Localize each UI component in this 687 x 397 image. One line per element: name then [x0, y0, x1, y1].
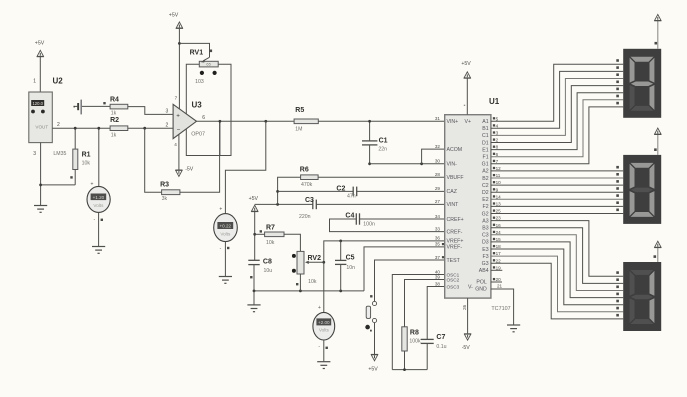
- svg-text:Volts: Volts: [93, 203, 104, 208]
- svg-text:28: 28: [435, 172, 441, 177]
- svg-text:U2: U2: [53, 77, 64, 86]
- svg-text:C4: C4: [345, 212, 354, 219]
- svg-text:16: 16: [496, 223, 502, 228]
- svg-text:36: 36: [435, 236, 441, 241]
- svg-text:C7: C7: [436, 334, 445, 341]
- svg-text:47n: 47n: [347, 194, 356, 200]
- svg-text:VIN+: VIN+: [447, 119, 459, 125]
- svg-text:VREF-: VREF-: [447, 245, 463, 251]
- svg-text:14: 14: [496, 194, 502, 199]
- svg-text:6: 6: [496, 152, 499, 157]
- svg-text:VBUFF: VBUFF: [447, 175, 464, 181]
- svg-text:C5: C5: [346, 254, 355, 261]
- svg-text:120.0: 120.0: [32, 101, 43, 106]
- svg-text:39: 39: [435, 274, 441, 279]
- svg-text:U3: U3: [192, 100, 203, 109]
- svg-text:+5V: +5V: [461, 61, 471, 67]
- svg-text:Volts: Volts: [220, 231, 231, 236]
- svg-text:470k: 470k: [301, 182, 313, 188]
- svg-text:C2: C2: [482, 183, 489, 189]
- svg-text:6: 6: [202, 115, 205, 121]
- svg-text:+5V: +5V: [35, 41, 45, 47]
- svg-text:C1: C1: [482, 133, 489, 139]
- svg-text:+: +: [318, 305, 321, 311]
- svg-text:R7: R7: [266, 225, 275, 232]
- svg-text:R5: R5: [295, 107, 304, 114]
- svg-text:RV2: RV2: [308, 255, 322, 262]
- svg-text:33: 33: [435, 226, 441, 231]
- svg-text:OSC2: OSC2: [447, 277, 460, 282]
- svg-text:R4: R4: [110, 97, 119, 104]
- svg-text:AB4: AB4: [479, 268, 489, 274]
- svg-text:21: 21: [497, 283, 503, 288]
- svg-text:−: −: [177, 127, 181, 134]
- svg-text:4: 4: [496, 123, 499, 128]
- svg-text:VOUT: VOUT: [35, 124, 48, 129]
- svg-text:+5V: +5V: [368, 367, 378, 373]
- svg-text:R1: R1: [82, 152, 91, 159]
- svg-text:POL: POL: [476, 280, 486, 286]
- svg-text:27: 27: [435, 199, 441, 204]
- svg-text:1M: 1M: [295, 126, 302, 132]
- svg-text:10k: 10k: [308, 279, 317, 285]
- svg-text:C3: C3: [305, 197, 314, 204]
- svg-text:V+: V+: [465, 119, 472, 125]
- svg-text:VINT: VINT: [447, 202, 460, 208]
- svg-text:23: 23: [496, 216, 502, 221]
- svg-text:11: 11: [496, 173, 501, 178]
- svg-text:C1: C1: [379, 138, 388, 145]
- svg-text:3: 3: [166, 109, 169, 115]
- svg-text:F2: F2: [483, 204, 489, 210]
- svg-text:VIN-: VIN-: [447, 162, 458, 168]
- svg-text:CREF-: CREF-: [447, 229, 463, 235]
- svg-text:A3: A3: [482, 218, 488, 224]
- svg-text:2: 2: [496, 138, 499, 143]
- svg-text:29: 29: [435, 186, 441, 191]
- svg-text:Volts: Volts: [319, 328, 330, 333]
- svg-text:OSC3: OSC3: [447, 284, 460, 289]
- svg-text:10k: 10k: [82, 161, 91, 167]
- svg-text:4: 4: [174, 142, 177, 147]
- svg-text:7: 7: [175, 96, 178, 101]
- svg-text:R6: R6: [300, 167, 309, 174]
- svg-text:E2: E2: [482, 197, 488, 203]
- svg-text:CAZ: CAZ: [447, 189, 457, 195]
- svg-text:30: 30: [435, 159, 441, 164]
- svg-text:1k: 1k: [111, 111, 117, 117]
- svg-text:+1.20: +1.20: [93, 195, 105, 200]
- svg-text:V-: V-: [468, 284, 473, 290]
- svg-text:22: 22: [496, 258, 502, 263]
- svg-text:CREF+: CREF+: [447, 217, 464, 223]
- svg-text:+2.00: +2.00: [318, 320, 330, 325]
- svg-text:C8: C8: [263, 258, 272, 265]
- svg-text:RV1: RV1: [190, 50, 204, 57]
- svg-text:E3: E3: [482, 247, 488, 253]
- svg-text:U1: U1: [489, 97, 500, 106]
- svg-text:17: 17: [496, 251, 502, 256]
- svg-text:2: 2: [166, 122, 169, 128]
- svg-text:D1: D1: [482, 140, 489, 146]
- svg-text:20: 20: [496, 277, 502, 282]
- svg-text:OP07: OP07: [191, 132, 205, 138]
- svg-text:R8: R8: [410, 330, 419, 337]
- svg-text:35: 35: [435, 242, 441, 247]
- svg-text:24: 24: [496, 230, 502, 235]
- svg-text:B1: B1: [482, 126, 488, 132]
- svg-text:26: 26: [462, 304, 467, 310]
- svg-text:19: 19: [496, 265, 502, 270]
- svg-text:220n: 220n: [299, 214, 311, 220]
- svg-text:+: +: [219, 207, 222, 213]
- svg-text:38: 38: [435, 281, 441, 286]
- svg-text:65: 65: [206, 62, 211, 67]
- svg-text:G2: G2: [482, 211, 489, 217]
- svg-text:B3: B3: [482, 226, 488, 232]
- svg-text:1: 1: [33, 78, 36, 84]
- svg-text:3: 3: [496, 131, 499, 136]
- svg-text:3: 3: [33, 151, 36, 157]
- svg-text:10: 10: [496, 180, 502, 185]
- svg-text:100n: 100n: [363, 221, 375, 227]
- svg-text:32: 32: [435, 144, 441, 149]
- svg-text:22n: 22n: [378, 147, 387, 153]
- svg-text:100k: 100k: [409, 339, 421, 345]
- svg-text:1k: 1k: [111, 133, 117, 139]
- svg-text:GND: GND: [475, 287, 487, 293]
- svg-text:TC7107: TC7107: [491, 306, 510, 312]
- svg-text:F3: F3: [483, 254, 489, 260]
- svg-text:LM35: LM35: [53, 151, 66, 157]
- svg-text:TEST: TEST: [447, 258, 461, 264]
- svg-text:D3: D3: [482, 240, 489, 246]
- svg-text:+: +: [176, 112, 180, 119]
- svg-text:18: 18: [496, 244, 502, 249]
- svg-text:+0.22: +0.22: [219, 224, 231, 229]
- svg-text:A2: A2: [482, 169, 488, 175]
- svg-text:15: 15: [496, 237, 502, 242]
- svg-text:C2: C2: [336, 185, 345, 192]
- svg-text:10u: 10u: [264, 268, 273, 274]
- svg-text:5: 5: [496, 116, 499, 121]
- svg-text:31: 31: [435, 116, 441, 121]
- svg-text:8: 8: [496, 145, 499, 150]
- svg-text:13: 13: [496, 202, 502, 207]
- svg-text:10n: 10n: [346, 265, 355, 271]
- svg-text:A1: A1: [482, 119, 488, 125]
- svg-text:0.1u: 0.1u: [436, 344, 446, 350]
- svg-text:2: 2: [57, 122, 60, 128]
- svg-text:9: 9: [496, 187, 499, 192]
- svg-text:103: 103: [195, 79, 204, 85]
- svg-text:B2: B2: [482, 176, 488, 182]
- svg-text:34: 34: [435, 214, 441, 219]
- svg-text:E1: E1: [482, 147, 488, 153]
- svg-text:+5V: +5V: [169, 12, 179, 18]
- svg-text:37: 37: [435, 255, 441, 260]
- svg-text:F1: F1: [483, 155, 489, 161]
- svg-text:R3: R3: [160, 181, 169, 188]
- svg-text:12: 12: [496, 166, 502, 171]
- svg-text:R2: R2: [110, 117, 119, 124]
- svg-text:D2: D2: [482, 190, 489, 196]
- svg-text:25: 25: [496, 209, 502, 214]
- svg-text:G1: G1: [482, 162, 489, 168]
- svg-text:-5V: -5V: [185, 166, 194, 172]
- svg-text:7: 7: [496, 159, 499, 164]
- svg-text:+: +: [91, 182, 94, 188]
- svg-text:3k: 3k: [162, 196, 168, 202]
- svg-text:-5V: -5V: [462, 345, 471, 351]
- svg-text:G3: G3: [482, 261, 489, 267]
- svg-text:C3: C3: [482, 233, 489, 239]
- svg-text:ACOM: ACOM: [447, 147, 463, 153]
- svg-text:+5V: +5V: [249, 196, 259, 202]
- svg-text:10k: 10k: [266, 240, 275, 246]
